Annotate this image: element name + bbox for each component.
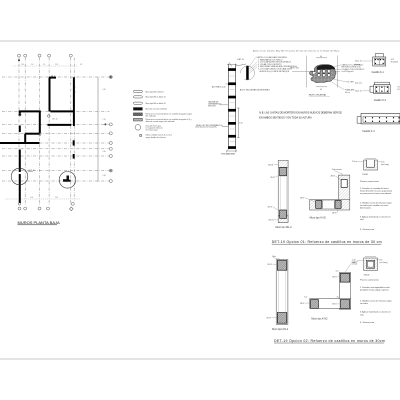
- svg-text:MURO (PLANTA): MURO (PLANTA): [309, 94, 326, 97]
- svg-text:3. Aplicar fastenland o concre: 3. Aplicar fastenland o concreto en: [360, 216, 391, 219]
- svg-text:DET-19 Opcion 02: Refuerzo de: DET-19 Opcion 02: Refuerzo de castillos …: [274, 339, 385, 343]
- svg-text:ACOT. EN JUNTAS DE MORTERO: ACOT. EN JUNTAS DE MORTERO: [240, 89, 270, 92]
- svg-text:AZOTEA N+5.40: AZOTEA N+5.40: [212, 86, 225, 89]
- svg-text:2: 2: [75, 92, 76, 94]
- svg-text:dala rem.: dala rem.: [355, 83, 363, 85]
- svg-text:VIGA MADRINA: VIGA MADRINA: [221, 152, 235, 155]
- svg-text:1E#3: 1E#3: [332, 213, 336, 215]
- svg-text:Castillo K-4: Castillo K-4: [362, 130, 375, 133]
- svg-text:Proceso constructivo:: Proceso constructivo:: [360, 180, 380, 183]
- svg-text:DET. N: DET. N: [238, 59, 245, 61]
- svg-text:pendiente hasta angulo superio: pendiente hasta angulo superior: [360, 289, 389, 292]
- svg-text:40 cm: 40 cm: [345, 92, 350, 94]
- svg-text:Aplica en los detalles 9A y 9B: Aplica en los detalles 9A y 9B. Ver plan…: [252, 49, 340, 52]
- svg-text:DR-01: DR-01: [269, 220, 274, 222]
- svg-text:Muro tipo M1-2: Muro tipo M1-2: [276, 226, 293, 229]
- svg-text:40: 40: [320, 89, 322, 91]
- svg-text:DET-19 Opcion 01: Refuerzo de: DET-19 Opcion 01: Refuerzo de castillos …: [272, 240, 382, 244]
- svg-text:N.B. LAS JUNTAS DE MORTERO EN: N.B. LAS JUNTAS DE MORTERO EN MUROS NUEV…: [259, 111, 342, 114]
- svg-text:Dala: Dala: [272, 256, 276, 258]
- svg-text:1E#3: 1E#3: [268, 206, 272, 208]
- svg-text:EN AMBOS SENTIDOS Y EN TODA SU: EN AMBOS SENTIDOS Y EN TODA SU ALTURA: [259, 117, 312, 120]
- svg-text:exist.: exist.: [352, 261, 357, 264]
- svg-text:MUROS M-1 y DONDE SE INDIQUE: MUROS M-1 y DONDE SE INDIQUE: [260, 71, 290, 73]
- svg-text:1. Demoler acero/plomilleria e: 1. Demoler acero/plomilleria exist.: [360, 286, 391, 289]
- svg-text:det. indicado: det. indicado: [146, 115, 156, 118]
- svg-text:block 20: block 20: [355, 91, 362, 93]
- svg-text:1.9: 1.9: [43, 64, 45, 66]
- svg-text:2E#3: 2E#3: [332, 277, 336, 279]
- svg-text:Muro tipo K-N2: Muro tipo K-N2: [310, 217, 327, 220]
- svg-text:2E#3: 2E#3: [300, 303, 304, 305]
- svg-text:se indica: se indica: [360, 303, 369, 305]
- svg-text:(ver long.): (ver long.): [381, 164, 389, 166]
- svg-text:Muro tipo M1-2: Muro tipo M1-2: [272, 328, 289, 331]
- svg-text:Muro tipo M3 en block 20: Muro tipo M3 en block 20: [146, 102, 166, 105]
- svg-text:4. Colocar junta: 4. Colocar junta: [360, 321, 375, 324]
- svg-text:P-6 TIPO: P-6 TIPO: [347, 82, 355, 84]
- svg-text:Muro tipo M1 existente: Muro tipo M1 existente: [146, 90, 164, 93]
- svg-text:2.15: 2.15: [55, 197, 58, 199]
- svg-text:4. Colocar junta: 4. Colocar junta: [360, 228, 375, 231]
- svg-text:DR-01: DR-01: [268, 164, 273, 166]
- svg-text:K-2: K-2: [337, 297, 340, 299]
- svg-text:2: 2: [75, 87, 76, 89]
- svg-text:NIVEL DE PISO TERMINADO N+: NIVEL DE PISO TERMINADO N+: [196, 124, 223, 127]
- svg-text:K-2: K-2: [304, 297, 307, 299]
- svg-text:2. Habilitar acero de refuerzo: 2. Habilitar acero de refuerzo segun: [360, 300, 392, 303]
- svg-text:ver notas al pie: ver notas al pie: [146, 129, 158, 132]
- svg-text:MUROS PLANTA BAJA: MUROS PLANTA BAJA: [18, 220, 60, 225]
- svg-text:2E#3: 2E#3: [267, 318, 271, 320]
- svg-text:MURO M-1: MURO M-1: [290, 68, 299, 70]
- svg-text:2E 1.15: 2E 1.15: [52, 119, 58, 121]
- svg-text:un paso para el nuevo acero-do: un paso para el nuevo acero-dowel: [360, 193, 392, 195]
- svg-text:1E#3: 1E#3: [332, 304, 336, 306]
- svg-text:2.15: 2.15: [55, 64, 58, 66]
- svg-text:f'c=150 kg/cm2: f'c=150 kg/cm2: [342, 71, 354, 73]
- svg-text:2.05: 2.05: [103, 89, 106, 91]
- svg-text:1.15: 1.15: [103, 119, 106, 121]
- svg-text:DET-19: DET-19: [29, 170, 35, 172]
- svg-text:hueco: hueco: [355, 64, 360, 66]
- svg-text:dalas de remate segun det. ind: dalas de remate segun det. indicado: [146, 120, 175, 123]
- svg-text:1.25: 1.25: [21, 64, 24, 66]
- svg-text:0.90: 0.90: [103, 151, 106, 153]
- svg-text:40: 40: [320, 56, 322, 58]
- svg-text:DR-01: DR-01: [364, 274, 371, 276]
- svg-text:Castillo K-1: Castillo K-1: [372, 71, 385, 74]
- svg-text:2E#3: 2E#3: [271, 177, 275, 179]
- svg-text:(ver long.): (ver long.): [380, 262, 388, 264]
- svg-text:2. Habilitar acero de refuerzo: 2. Habilitar acero de refuerzo segun: [360, 202, 392, 205]
- svg-text:DR-01: DR-01: [363, 174, 370, 176]
- svg-text:2.40: 2.40: [239, 123, 243, 125]
- svg-text:Muro tipo K-N2: Muro tipo K-N2: [311, 318, 328, 321]
- svg-text:K-2: K-2: [336, 270, 339, 272]
- svg-text:hasta descubrir el acero y gar: hasta descubrir el acero y garantizar: [360, 189, 393, 192]
- svg-text:3. Aplicar fastenland o concre: 3. Aplicar fastenland o concreto en: [360, 311, 391, 314]
- svg-text:Muro de concreto existente: Muro de concreto existente: [146, 108, 168, 111]
- svg-text:E#2@20: E#2@20: [391, 62, 398, 64]
- svg-text:Proceso constructivo:: Proceso constructivo:: [360, 278, 380, 281]
- svg-text:block 15: block 15: [355, 61, 362, 63]
- svg-text:Dala remate: Dala remate: [332, 168, 342, 171]
- svg-text:2.5cm: 2.5cm: [352, 161, 357, 163]
- svg-text:2.8: 2.8: [31, 64, 33, 66]
- svg-text:2E#3: 2E#3: [331, 176, 335, 178]
- svg-text:dimensiones: dimensiones: [360, 208, 371, 210]
- svg-text:Muro tipo M2 en block 15: Muro tipo M2 en block 15: [146, 96, 166, 99]
- svg-text:VER DET.: VER DET.: [208, 106, 217, 108]
- svg-text:segun detalle de refuerzo: segun detalle de refuerzo: [146, 136, 166, 139]
- svg-text:1E#3: 1E#3: [300, 198, 304, 200]
- svg-text:1. Demoler un costado del muro: 1. Demoler un costado del muro: [360, 187, 389, 190]
- svg-text:3.2: 3.2: [80, 64, 82, 66]
- svg-text:2.40: 2.40: [103, 175, 106, 177]
- svg-text:1.25: 1.25: [30, 197, 33, 199]
- svg-text:2E#3: 2E#3: [268, 264, 272, 266]
- svg-text:se indica para castillo con es: se indica para castillo con estas: [360, 204, 388, 207]
- svg-text:Castillo K-3: Castillo K-3: [374, 99, 387, 102]
